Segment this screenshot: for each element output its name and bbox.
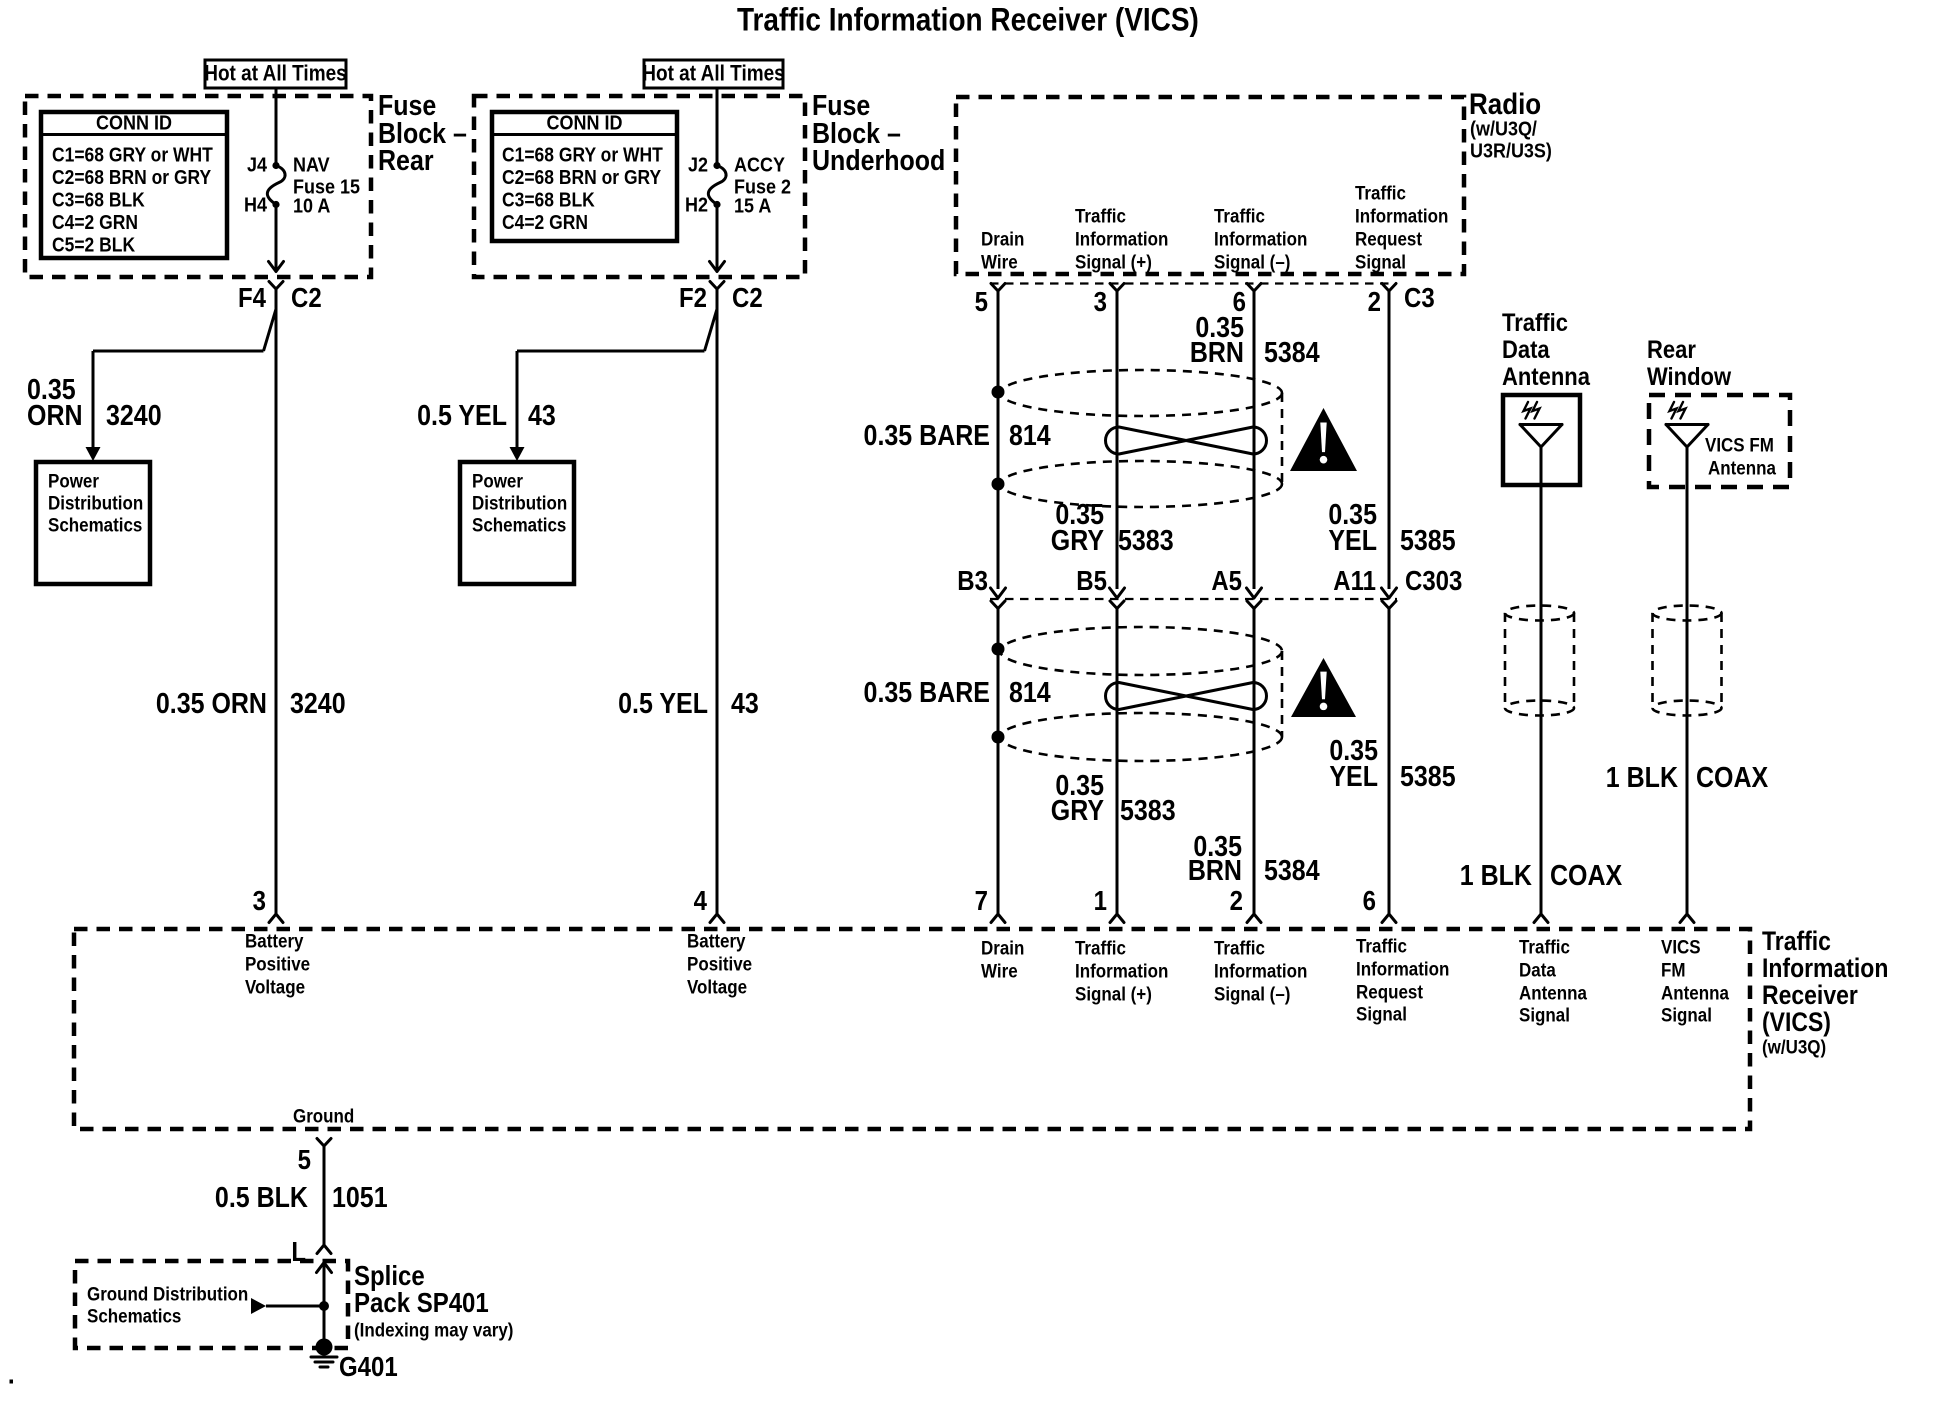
svg-text:Wire: Wire (981, 959, 1018, 981)
svg-text:Underhood: Underhood (812, 145, 945, 177)
svg-text:43: 43 (528, 400, 556, 432)
svg-text:Ground Distribution: Ground Distribution (87, 1282, 248, 1304)
svg-text:Traffic: Traffic (1075, 936, 1126, 958)
svg-text:Battery: Battery (245, 929, 304, 951)
svg-text:Signal (–): Signal (–) (1214, 982, 1290, 1004)
svg-text:Distribution: Distribution (48, 491, 143, 513)
svg-text:Window: Window (1647, 364, 1732, 392)
svg-text:0.35 BARE: 0.35 BARE (864, 677, 990, 709)
svg-text:Power: Power (48, 469, 99, 491)
svg-text:COAX: COAX (1696, 762, 1768, 794)
svg-text:Information: Information (1075, 227, 1168, 249)
svg-text:Signal: Signal (1519, 1003, 1570, 1025)
svg-text:5385: 5385 (1400, 761, 1456, 793)
svg-text:Schematics: Schematics (472, 513, 566, 535)
svg-text:H4: H4 (244, 193, 267, 216)
svg-text:YEL: YEL (1329, 761, 1378, 793)
svg-text:2: 2 (1230, 887, 1243, 917)
svg-text:C1=68 GRY or WHT: C1=68 GRY or WHT (502, 143, 663, 165)
svg-text:0.5 BLK: 0.5 BLK (215, 1182, 309, 1214)
svg-text:2: 2 (1368, 288, 1381, 318)
svg-text:Antenna: Antenna (1519, 981, 1588, 1003)
svg-text:CONN ID: CONN ID (96, 111, 172, 134)
svg-text:6: 6 (1363, 887, 1376, 917)
svg-text:5383: 5383 (1120, 795, 1176, 827)
svg-text:GRY: GRY (1051, 525, 1104, 557)
svg-text:Request: Request (1355, 227, 1422, 249)
svg-text:(VICS): (VICS) (1762, 1009, 1831, 1038)
svg-text:1: 1 (1094, 887, 1107, 917)
svg-text:Pack SP401: Pack SP401 (354, 1289, 489, 1319)
svg-text:Antenna: Antenna (1502, 364, 1591, 392)
svg-text:J4: J4 (247, 153, 267, 176)
svg-text:814: 814 (1009, 677, 1051, 709)
svg-text:BRN: BRN (1188, 855, 1242, 887)
svg-text:Splice: Splice (354, 1262, 425, 1292)
svg-text:BRN: BRN (1190, 337, 1244, 369)
svg-text:Schematics: Schematics (87, 1304, 181, 1326)
svg-text:Rear: Rear (378, 145, 434, 177)
svg-text:1051: 1051 (332, 1182, 388, 1214)
svg-text:3: 3 (1094, 288, 1107, 318)
svg-text:CONN ID: CONN ID (547, 111, 623, 134)
svg-text:5383: 5383 (1118, 525, 1174, 557)
svg-text:Battery: Battery (687, 929, 746, 951)
svg-text:15 A: 15 A (734, 194, 771, 217)
svg-text:5385: 5385 (1400, 525, 1456, 557)
svg-text:Signal: Signal (1355, 250, 1406, 272)
svg-text:Power: Power (472, 469, 523, 491)
svg-text:7: 7 (975, 887, 988, 917)
svg-text:Traffic: Traffic (1075, 204, 1126, 226)
svg-text:Signal (+): Signal (+) (1075, 982, 1152, 1004)
svg-text:H2: H2 (685, 193, 708, 216)
svg-text:Traffic: Traffic (1355, 181, 1406, 203)
svg-text:Antenna: Antenna (1661, 981, 1730, 1003)
svg-text:ORN: ORN (27, 400, 83, 432)
svg-text:C2: C2 (291, 284, 322, 314)
svg-text:43: 43 (731, 688, 759, 720)
svg-text:C3=68 BLK: C3=68 BLK (52, 188, 145, 210)
svg-text:(w/U3Q/: (w/U3Q/ (1470, 117, 1538, 140)
svg-text:Traffic: Traffic (1356, 934, 1407, 956)
svg-text:YEL: YEL (1328, 525, 1377, 557)
svg-text:Rear: Rear (1647, 337, 1696, 365)
svg-text:C3: C3 (1404, 284, 1435, 314)
svg-text:C4=2 GRN: C4=2 GRN (502, 211, 588, 233)
svg-text:0.35 BARE: 0.35 BARE (864, 420, 990, 452)
svg-text:Traffic: Traffic (1519, 935, 1570, 957)
svg-text:F4: F4 (238, 284, 267, 314)
svg-text:A11: A11 (1333, 567, 1376, 597)
svg-text:5: 5 (298, 1146, 311, 1176)
svg-text:0.5 YEL: 0.5 YEL (618, 688, 708, 720)
svg-text:Data: Data (1519, 958, 1557, 980)
svg-text:Wire: Wire (981, 250, 1018, 272)
svg-text:5384: 5384 (1264, 855, 1320, 887)
svg-text:G401: G401 (339, 1353, 398, 1383)
svg-text:Drain: Drain (981, 227, 1024, 249)
svg-text:Information: Information (1075, 959, 1168, 981)
svg-text:C2: C2 (732, 284, 763, 314)
svg-text:Traffic: Traffic (1214, 204, 1265, 226)
svg-text:Positive: Positive (245, 952, 310, 974)
svg-text:3240: 3240 (106, 400, 162, 432)
svg-text:Information: Information (1762, 955, 1888, 984)
svg-text:Traffic Information Receiver (: Traffic Information Receiver (VICS) (737, 3, 1199, 38)
svg-text:Radio: Radio (1469, 87, 1541, 120)
svg-text:Signal: Signal (1356, 1002, 1407, 1024)
svg-text:1 BLK: 1 BLK (1460, 860, 1533, 892)
svg-text:NAV: NAV (293, 153, 330, 176)
svg-text:Schematics: Schematics (48, 513, 142, 535)
svg-text:814: 814 (1009, 420, 1051, 452)
svg-text:Data: Data (1502, 337, 1550, 365)
svg-text:C1=68 GRY or WHT: C1=68 GRY or WHT (52, 143, 213, 165)
svg-text:VICS FM: VICS FM (1705, 433, 1774, 455)
svg-text:Voltage: Voltage (245, 975, 305, 997)
svg-text:5: 5 (975, 288, 988, 318)
svg-text:Signal: Signal (1661, 1003, 1712, 1025)
svg-text:0.5 YEL: 0.5 YEL (417, 400, 507, 432)
svg-text:Receiver: Receiver (1762, 982, 1858, 1011)
svg-text:C2=68 BRN or GRY: C2=68 BRN or GRY (52, 166, 212, 188)
svg-text:Hot at All Times: Hot at All Times (204, 61, 346, 86)
svg-text:Signal (+): Signal (+) (1075, 250, 1152, 272)
svg-text:Traffic: Traffic (1214, 936, 1265, 958)
svg-text:ACCY: ACCY (734, 153, 785, 176)
svg-text:(w/U3Q): (w/U3Q) (1762, 1035, 1826, 1057)
svg-text:C2=68 BRN or GRY: C2=68 BRN or GRY (502, 166, 662, 188)
svg-text:10 A: 10 A (293, 194, 330, 217)
svg-text:B5: B5 (1076, 567, 1107, 597)
svg-text:Signal (–): Signal (–) (1214, 250, 1290, 272)
svg-text:Traffic: Traffic (1502, 310, 1568, 338)
svg-text:4: 4 (694, 887, 708, 917)
svg-text:A5: A5 (1211, 567, 1242, 597)
svg-text:C303: C303 (1405, 567, 1462, 597)
svg-text:Information: Information (1214, 959, 1307, 981)
svg-text:C4=2 GRN: C4=2 GRN (52, 211, 138, 233)
svg-text:5384: 5384 (1264, 337, 1320, 369)
svg-text:0.35 ORN: 0.35 ORN (156, 688, 267, 720)
svg-text:Information: Information (1356, 957, 1449, 979)
svg-text:C3=68 BLK: C3=68 BLK (502, 188, 595, 210)
svg-text:B3: B3 (957, 567, 988, 597)
svg-text:Ground: Ground (293, 1104, 354, 1126)
svg-text:Information: Information (1214, 227, 1307, 249)
svg-text:Traffic: Traffic (1762, 928, 1831, 957)
svg-text:Drain: Drain (981, 936, 1024, 958)
svg-text:Hot at All Times: Hot at All Times (642, 61, 784, 86)
svg-text:3: 3 (253, 887, 266, 917)
svg-text:F2: F2 (679, 284, 707, 314)
svg-text:J2: J2 (688, 153, 708, 176)
svg-text:FM: FM (1661, 958, 1686, 980)
svg-text:Antenna: Antenna (1708, 456, 1777, 478)
svg-text:Information: Information (1355, 204, 1448, 226)
svg-text:Positive: Positive (687, 952, 752, 974)
svg-text:Distribution: Distribution (472, 491, 567, 513)
svg-text:1 BLK: 1 BLK (1606, 762, 1679, 794)
svg-text:U3R/U3S): U3R/U3S) (1470, 139, 1552, 162)
svg-text:COAX: COAX (1550, 860, 1622, 892)
svg-text:Request: Request (1356, 980, 1423, 1002)
svg-text:(Indexing may vary): (Indexing may vary) (354, 1318, 513, 1340)
svg-text:GRY: GRY (1051, 795, 1104, 827)
svg-text:VICS: VICS (1661, 935, 1701, 957)
svg-text:C5=2 BLK: C5=2 BLK (52, 233, 135, 255)
svg-text:Voltage: Voltage (687, 975, 747, 997)
svg-text:3240: 3240 (290, 688, 346, 720)
